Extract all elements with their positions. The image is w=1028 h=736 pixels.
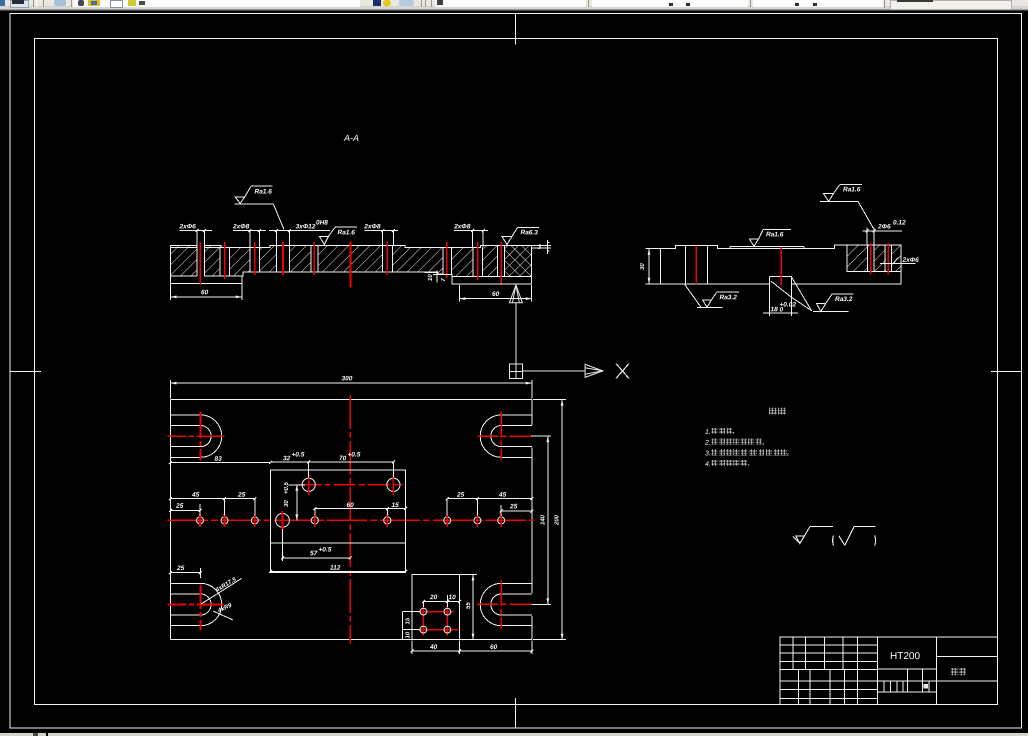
red main centerlines of plate	[349, 395, 351, 644]
red centerlines	[696, 243, 888, 286]
upper circle left Φ12	[302, 478, 315, 491]
svg-text:+0.5: +0.5	[347, 452, 360, 459]
svg-text:2xΦ6: 2xΦ6	[901, 257, 919, 264]
svg-text:40: 40	[429, 644, 438, 651]
big circle Φ12 on centerline	[276, 514, 290, 528]
slot top-right	[480, 415, 532, 457]
svg-text:25: 25	[176, 565, 185, 572]
dim 2xΦ6	[180, 230, 213, 232]
svg-text:30: 30	[284, 500, 290, 507]
X label	[616, 364, 629, 379]
main verticals	[876, 637, 878, 705]
svg-text:2Φ6: 2Φ6	[877, 223, 891, 230]
hole Φ6 mid	[311, 246, 318, 272]
small circle mid-left	[311, 517, 318, 524]
dims 32 / 70	[271, 460, 395, 477]
hole 2xΦ6 right	[498, 246, 505, 276]
centering tick top	[514, 14, 516, 45]
centering tick right	[991, 370, 1021, 372]
surface flag Ra1.6 mid on bar top	[319, 227, 357, 244]
left foot (unsectioned)	[171, 276, 242, 284]
basic symbol with triangle	[796, 536, 805, 544]
surface flag Ra3.2 bottom-left with leader	[685, 284, 740, 307]
svg-text:0.12: 0.12	[893, 220, 906, 227]
dim 2xΦ8 right	[454, 230, 488, 232]
svg-text:0H8: 0H8	[316, 220, 328, 227]
toolbar sliver (cut off at top of screenshot)	[0, 0, 1028, 12]
outer box	[780, 637, 997, 705]
left lower rows	[780, 680, 877, 682]
svg-text:60: 60	[490, 644, 498, 651]
svg-text:300: 300	[341, 375, 352, 382]
dims 15 / 10 rotated left of small rect	[403, 612, 420, 640]
dim 25 left lower	[169, 504, 202, 516]
svg-text:4.: 4.	[705, 461, 711, 468]
dims 45 / 25 left trio	[169, 497, 256, 515]
block hole edges 2xΦ6	[867, 246, 891, 272]
thin strip on top	[730, 245, 804, 247]
dims 25 / 45 right trio	[446, 497, 534, 515]
svg-text:2xΦ8: 2xΦ8	[453, 223, 471, 230]
svg-text:7: 7	[441, 278, 447, 282]
svg-text:10: 10	[448, 594, 456, 601]
svg-text:+0.5: +0.5	[291, 452, 304, 459]
right trio holes	[444, 514, 505, 527]
svg-text:A-A: A-A	[343, 133, 359, 143]
small step dims 10 and 7	[425, 271, 453, 283]
svg-text:15: 15	[406, 617, 412, 624]
svg-text:+0.5: +0.5	[318, 547, 331, 554]
hole 2xΦ8 right	[473, 248, 483, 276]
svg-text:3: 3	[537, 244, 541, 251]
svg-text:+0.5: +0.5	[284, 481, 290, 494]
svg-text:18: 18	[770, 306, 778, 313]
middle rectangle component	[271, 470, 406, 572]
svg-text:25: 25	[237, 492, 246, 499]
svg-text:25: 25	[175, 503, 184, 510]
left upper columns	[792, 637, 794, 670]
svg-text:60: 60	[201, 289, 209, 296]
slot top-left (4xR17.5 / 4xR9)	[170, 415, 221, 457]
middle small cells row	[883, 681, 885, 692]
svg-text:20: 20	[429, 594, 438, 601]
left upper rows	[780, 644, 877, 646]
centering tick bottom	[514, 698, 516, 728]
surface flag Ra1.6 top-right with leader to hole	[820, 184, 873, 228]
hole at 224.6	[220, 248, 230, 276]
main bar outline	[660, 245, 901, 284]
svg-text:1.: 1.	[705, 429, 711, 436]
svg-text:70: 70	[339, 455, 347, 462]
notes title (CJK blob)	[769, 407, 777, 414]
right-end lip height dim (ext lines, dim line, tiny value)	[532, 240, 551, 254]
slot bottom-left	[170, 583, 221, 625]
surface flag Ra6.3 right	[502, 227, 539, 244]
centering tick left	[10, 370, 41, 372]
dim 30 vertical (middle rect)	[289, 485, 305, 521]
svg-text:Ra6.3: Ra6.3	[520, 229, 538, 236]
open parenthesis	[832, 536, 835, 546]
hole 2xΦ8	[250, 248, 260, 271]
hole at 446.8	[443, 248, 452, 274]
check symbol in parentheses	[839, 536, 845, 545]
lip underline left end	[171, 247, 222, 249]
4 holes with red link rectangle	[418, 606, 459, 636]
svg-text:2xΦ8: 2xΦ8	[363, 223, 381, 230]
svg-text:10: 10	[406, 631, 412, 638]
cross-hatched right end	[504, 245, 531, 276]
svg-text:10: 10	[428, 274, 434, 281]
svg-text:4xR17.5: 4xR17.5	[214, 577, 238, 595]
dim 2xΦ6 over block	[862, 228, 902, 245]
svg-text:25: 25	[456, 492, 465, 499]
svg-text:25: 25	[509, 503, 518, 510]
keyway slot bottom middle	[763, 276, 798, 316]
svg-text:200: 200	[555, 514, 561, 526]
svg-text:45: 45	[498, 492, 507, 499]
dim 300 top	[170, 380, 531, 399]
dim 2xΦ8 first	[233, 230, 266, 232]
hole 3xΦ12	[277, 246, 290, 272]
hole 2xΦ8 mid	[383, 246, 393, 272]
svg-text:2.: 2.	[704, 440, 711, 447]
svg-text:0: 0	[779, 307, 783, 314]
svg-text:57: 57	[310, 550, 318, 557]
leader 4xR9	[213, 611, 233, 620]
close parenthesis	[874, 536, 877, 546]
tiny sheet mark	[924, 684, 929, 689]
svg-text:112: 112	[330, 565, 341, 572]
Y axis arrowhead cone	[509, 285, 522, 303]
origin box with cross	[510, 364, 523, 379]
dims 20 / 10	[422, 595, 461, 607]
dim 30 left	[645, 248, 662, 284]
hole 2xΦ6 left	[197, 245, 204, 277]
dim 25 bottom-left slot	[169, 568, 202, 578]
dim 140 vertical right	[531, 436, 551, 604]
red centerlines of holes	[200, 242, 501, 288]
part name (CJK blob) in right column	[951, 668, 958, 676]
svg-text:60: 60	[346, 502, 354, 509]
svg-text:55: 55	[466, 602, 472, 609]
svg-text:2xΦ8: 2xΦ8	[232, 223, 250, 230]
label 2xΦ6 right leader	[880, 263, 916, 265]
Y axis line	[515, 303, 517, 364]
svg-text:Ra1.6: Ra1.6	[254, 189, 272, 196]
dim 2xΦ8 mid	[364, 230, 398, 232]
dims 40 / 60 bottom	[411, 641, 534, 654]
leader 4xR17.5	[201, 578, 242, 604]
left hole edges	[685, 245, 687, 284]
right column rows	[937, 656, 998, 658]
small oblique arrow ticks on dim row	[196, 229, 485, 232]
svg-text:3.: 3.	[705, 450, 711, 457]
svg-text:Ra1.6: Ra1.6	[843, 186, 861, 193]
svg-text:30: 30	[640, 263, 646, 270]
dim 112	[271, 570, 406, 572]
holes (black gaps with white edges)	[197, 245, 504, 277]
svg-text:32: 32	[283, 455, 291, 462]
bottom-right rectangle component	[412, 574, 460, 639]
X axis arrowhead cone	[585, 364, 603, 377]
red centerlines: slots	[168, 412, 531, 630]
dim 83	[170, 462, 270, 464]
dim 57	[281, 529, 352, 561]
left trio holes	[197, 514, 259, 527]
middle: HT200 cell bottom	[877, 668, 936, 670]
svg-text:45: 45	[191, 492, 200, 499]
surface flag Ra3.2 bottom-middle with leaders from keyway	[771, 278, 853, 312]
top dimension row	[180, 231, 489, 248]
dim 60 under right foot	[460, 285, 532, 302]
svg-text:83: 83	[214, 456, 222, 463]
dim 200 vertical right	[533, 400, 566, 640]
plate outline	[170, 400, 531, 640]
block foot line	[847, 271, 901, 273]
svg-text:15: 15	[391, 502, 399, 509]
surface flag Ra1.6 on top strip	[750, 229, 792, 246]
X axis line	[522, 370, 585, 372]
dim 60 under left foot	[171, 284, 242, 300]
surface flag Ra1.6 top-left with leader	[235, 186, 284, 229]
svg-text:3xΦ12: 3xΦ12	[296, 223, 316, 230]
upper circle right Φ12	[387, 478, 400, 491]
bottom status strip	[0, 733, 1028, 736]
svg-text:Ra1.6: Ra1.6	[766, 231, 784, 238]
svg-text:Ra3.2: Ra3.2	[719, 294, 737, 301]
left lower columns	[798, 670, 800, 705]
section body hatched profile	[171, 245, 532, 276]
red line linking upper circles	[300, 484, 404, 486]
dim 55 vertical	[460, 574, 477, 639]
slot bottom-right	[480, 583, 532, 625]
svg-text:HT200: HT200	[890, 651, 920, 662]
dim 60 / 15 mid	[313, 507, 407, 515]
svg-text:Ra3.2: Ra3.2	[835, 296, 853, 303]
svg-text:Ra1.6: Ra1.6	[337, 229, 355, 236]
small circle mid-right	[384, 517, 391, 524]
right foot (unsectioned)	[452, 277, 532, 284]
dim 3xΦ12	[269, 230, 330, 232]
svg-text:2xΦ6: 2xΦ6	[178, 223, 196, 230]
svg-text:60: 60	[492, 291, 500, 298]
hatched block right end	[847, 245, 901, 272]
dim 25 right lower	[500, 505, 534, 516]
svg-text:140: 140	[541, 514, 547, 525]
